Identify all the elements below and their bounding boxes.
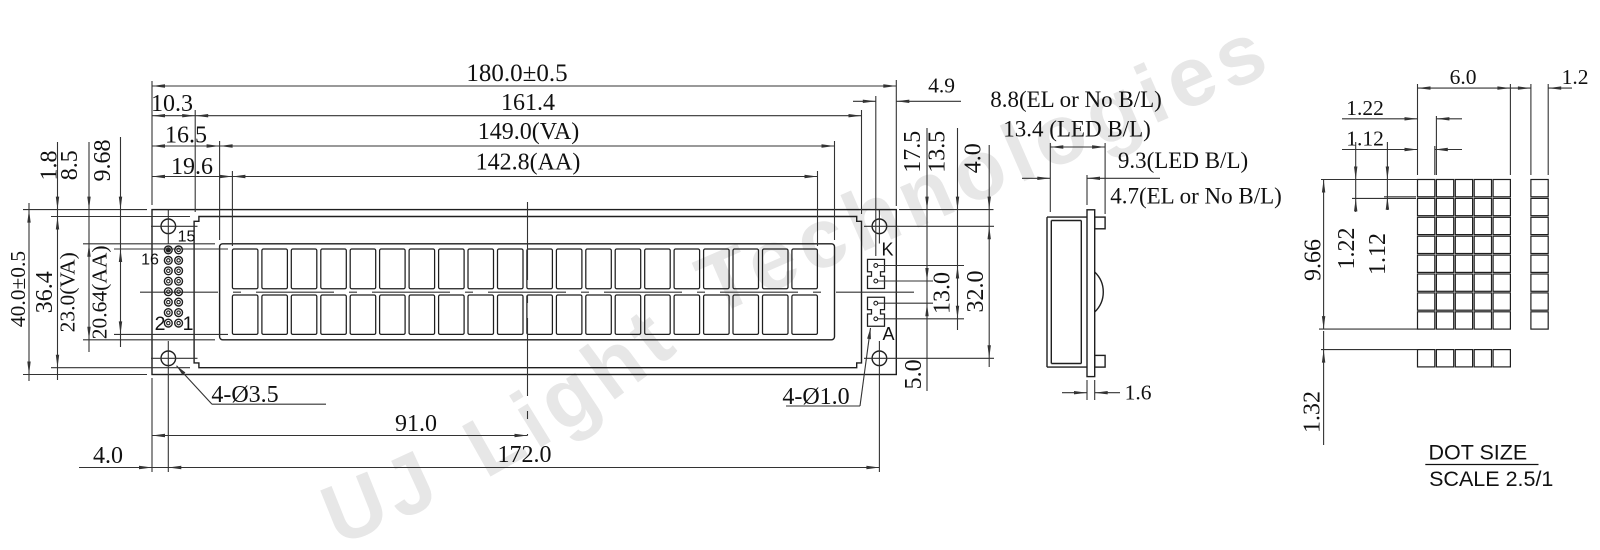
svg-text:DOT SIZE: DOT SIZE: [1429, 440, 1528, 464]
svg-text:180.0±0.5: 180.0±0.5: [466, 60, 567, 87]
svg-text:1: 1: [183, 313, 194, 335]
svg-text:20.64(AA): 20.64(AA): [88, 245, 112, 339]
svg-text:9.68: 9.68: [90, 140, 116, 182]
svg-text:4.7(EL or No B/L): 4.7(EL or No B/L): [1110, 184, 1282, 209]
svg-text:161.4: 161.4: [501, 90, 555, 116]
svg-text:16: 16: [141, 252, 159, 269]
svg-text:13.4 (LED B/L): 13.4 (LED B/L): [1003, 117, 1151, 142]
svg-text:149.0(VA): 149.0(VA): [478, 119, 580, 145]
svg-text:1.6: 1.6: [1125, 381, 1152, 405]
svg-text:32.0: 32.0: [963, 271, 989, 313]
svg-text:13.0: 13.0: [930, 272, 956, 314]
svg-text:36.4: 36.4: [32, 271, 58, 313]
svg-text:16.5: 16.5: [165, 123, 207, 149]
svg-text:K: K: [881, 240, 893, 260]
svg-text:2: 2: [155, 313, 166, 335]
svg-text:4.0: 4.0: [961, 143, 987, 173]
svg-text:19.6: 19.6: [171, 154, 213, 180]
svg-text:1.22: 1.22: [1346, 96, 1384, 120]
svg-text:4-Ø3.5: 4-Ø3.5: [211, 382, 278, 408]
svg-text:172.0: 172.0: [498, 442, 552, 468]
svg-text:15: 15: [178, 229, 196, 246]
svg-text:8.5: 8.5: [57, 150, 83, 180]
svg-text:1.32: 1.32: [1300, 391, 1326, 433]
svg-text:A: A: [882, 324, 894, 344]
svg-text:9.3(LED B/L): 9.3(LED B/L): [1118, 148, 1248, 173]
svg-text:9.66: 9.66: [1301, 239, 1327, 281]
svg-text:17.5: 17.5: [900, 131, 926, 173]
svg-text:1.12: 1.12: [1346, 127, 1384, 151]
svg-text:5.0: 5.0: [901, 359, 927, 389]
svg-text:23.0(VA): 23.0(VA): [55, 252, 79, 332]
svg-text:4.0: 4.0: [93, 443, 123, 469]
svg-text:142.8(AA): 142.8(AA): [476, 150, 581, 176]
svg-text:8.8(EL or No B/L): 8.8(EL or No B/L): [990, 87, 1162, 112]
svg-text:6.0: 6.0: [1450, 65, 1477, 89]
svg-text:SCALE 2.5/1: SCALE 2.5/1: [1429, 467, 1553, 491]
svg-text:1.12: 1.12: [1365, 233, 1391, 275]
svg-text:13.5: 13.5: [925, 131, 951, 173]
svg-text:4.9: 4.9: [928, 74, 955, 98]
svg-text:10.3: 10.3: [151, 91, 193, 117]
svg-text:40.0±0.5: 40.0±0.5: [6, 251, 30, 327]
svg-text:91.0: 91.0: [395, 411, 437, 437]
svg-text:1.22: 1.22: [1334, 228, 1360, 270]
svg-text:1.2: 1.2: [1562, 65, 1589, 89]
